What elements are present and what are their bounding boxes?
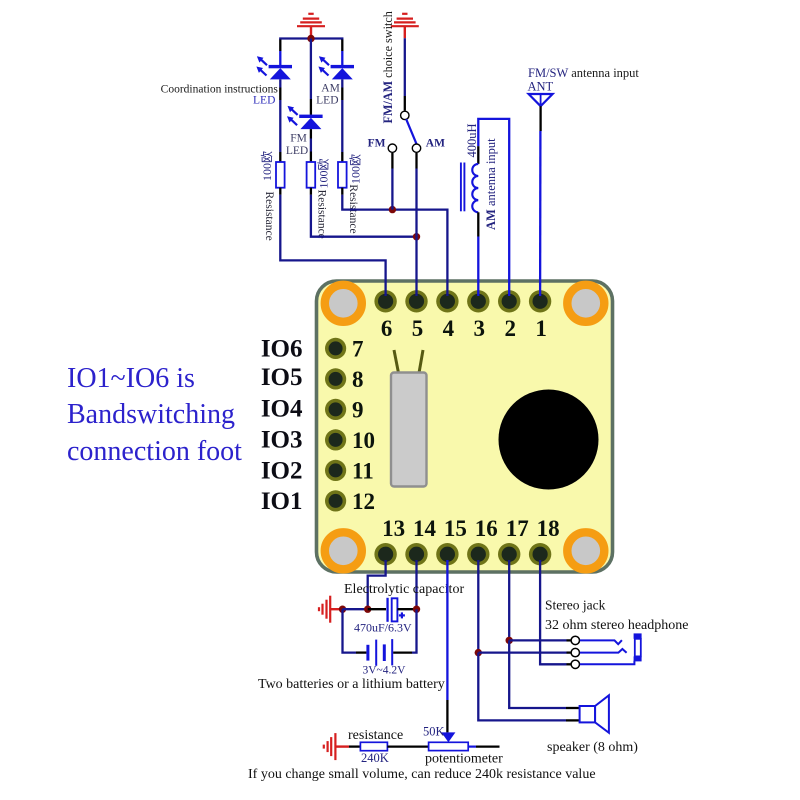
wire pin17 to speaker top (509, 640, 566, 708)
jack J1 sleeve line3 (580, 661, 635, 665)
svg-text:IO5: IO5 (261, 364, 303, 391)
svg-text:FM/AM choice switch: FM/AM choice switch (381, 11, 395, 123)
wire LED D1 bottom lead (279, 79, 281, 87)
ground GND3 capacitor rail (319, 596, 343, 623)
junction top rail (307, 35, 314, 42)
jack terminal 3 (571, 660, 579, 668)
svg-text:7: 7 (352, 337, 364, 362)
pin number labels 13-18 (382, 516, 559, 541)
wire inductor top lead (477, 146, 479, 164)
pin number labels 6 5 4 3 2 1 (381, 316, 547, 341)
svg-text:LED: LED (316, 94, 338, 106)
svg-text:Resistance: Resistance (263, 192, 275, 241)
pin 17 (498, 543, 520, 565)
svg-text:IO6: IO6 (261, 336, 303, 363)
wire pin14 down (415, 560, 417, 609)
svg-text:13: 13 (382, 516, 405, 541)
svg-text:LED: LED (286, 145, 308, 157)
pin number labels 7-12 (352, 337, 375, 515)
wire R2 to pin5 rail (310, 188, 312, 195)
switch AM contact (412, 144, 420, 152)
wire pin16 down (477, 560, 479, 653)
wire R4 to potentiometer (387, 745, 428, 747)
IO labels IO6-IO1 (261, 336, 303, 516)
svg-text:3V~4.2V: 3V~4.2V (363, 665, 407, 677)
wire battery left lead (343, 609, 357, 652)
svg-text:17: 17 (506, 516, 529, 541)
svg-text:IO1~IO6 is: IO1~IO6 is (67, 363, 195, 394)
ground GND1 top-left (297, 14, 325, 38)
svg-text:AM: AM (321, 82, 340, 94)
switch S1 lever (406, 119, 416, 144)
mounting hole bottom-left (325, 532, 362, 569)
svg-text:100欧: 100欧 (317, 158, 331, 188)
potentiometer wiper arrow (441, 732, 455, 742)
svg-text:potentiometer: potentiometer (425, 751, 503, 766)
wire cap left lead (368, 608, 386, 610)
svg-text:50K: 50K (423, 724, 445, 738)
wire R3 to pin4 rail (341, 188, 343, 195)
wire top LED rail (280, 39, 342, 41)
junction pin14 cap battery (413, 606, 420, 613)
svg-text:Two batteries or a lithium bat: Two batteries or a lithium battery (258, 677, 445, 692)
junction AM wire to pin5 rail (413, 233, 420, 240)
svg-text:IO2: IO2 (261, 458, 303, 485)
pin 18 (529, 543, 551, 565)
pin 5 (405, 290, 427, 312)
svg-text:speaker (8 ohm): speaker (8 ohm) (547, 740, 638, 755)
pin 8 (325, 368, 346, 389)
resistor R1 (276, 162, 285, 188)
resistor R4 240K (360, 742, 387, 750)
wire potentiometer right lead (468, 745, 476, 747)
svg-text:AM antenna input: AM antenna input (484, 138, 498, 230)
resistor R3 (338, 162, 347, 188)
pin 2 (498, 290, 520, 312)
wire AM contact down to pin5 (415, 153, 417, 169)
svg-text:Resistance: Resistance (316, 190, 328, 239)
mounting hole bottom-right (567, 532, 604, 569)
wire AM antenna loop pin2 (478, 119, 509, 296)
ground GND4 volume (324, 733, 349, 760)
svg-text:connection foot: connection foot (67, 436, 242, 467)
wire lead LED D2 top (341, 40, 343, 52)
mounting hole top-left (325, 285, 362, 322)
junction pin17 jack line1 (506, 637, 513, 644)
note IO1~IO6 is Bandswitching connection foot (67, 363, 242, 467)
svg-text:100欧: 100欧 (260, 151, 274, 181)
wire LED D2 bottom lead (341, 79, 343, 87)
svg-text:15: 15 (444, 516, 467, 541)
junction ground rail (339, 606, 346, 613)
svg-text:ANT: ANT (528, 80, 554, 94)
jack J1 contact line2 (580, 649, 627, 653)
wire cap right lead (397, 608, 416, 610)
pin 16 (467, 543, 489, 565)
wire pin18 to jack sleeve (540, 560, 566, 664)
pin 9 (325, 399, 346, 420)
svg-text:resistance: resistance (348, 728, 403, 743)
svg-text:2: 2 (504, 316, 516, 341)
crystal component on board (391, 350, 427, 487)
wire pin17 down (508, 560, 510, 640)
svg-text:3: 3 (474, 316, 486, 341)
svg-text:FM: FM (290, 132, 307, 144)
svg-text:Stereo jack: Stereo jack (545, 598, 606, 613)
inductor L1 core (460, 163, 462, 212)
svg-text:IO4: IO4 (261, 396, 303, 423)
pin 14 (405, 543, 427, 565)
wire middle LED branch (310, 39, 312, 100)
wire jack line1 from junction (509, 639, 566, 641)
svg-text:470uF/6.3V: 470uF/6.3V (354, 621, 412, 635)
svg-text:5: 5 (412, 316, 424, 341)
wire LED D3 bottom lead (310, 129, 312, 138)
pin 6 (374, 290, 396, 312)
svg-text:100欧: 100欧 (348, 154, 362, 184)
pin 1 (529, 290, 551, 312)
pin 13 (374, 543, 396, 565)
epoxy blob chip on board (499, 390, 599, 490)
wire FM contact down (391, 153, 393, 169)
pin 15 (436, 543, 458, 565)
capacitor C1 electrolytic (386, 598, 405, 622)
svg-text:8: 8 (352, 367, 364, 392)
wire pin15 to potentiometer wiper (446, 560, 448, 700)
LED D3 FM LED (287, 106, 323, 129)
wire pin16 to speaker bottom (478, 653, 566, 721)
mounting hole top-right (567, 285, 604, 322)
svg-text:10: 10 (352, 428, 375, 453)
resistor R2 (307, 162, 316, 188)
svg-text:400uH: 400uH (465, 123, 479, 157)
jack J1 contact line1 (580, 640, 622, 644)
LED D1 Coordination instructions LED (256, 56, 292, 79)
svg-text:12: 12 (352, 489, 375, 514)
LED D2 AM LED (318, 56, 354, 79)
wire antenna to pin1 (539, 106, 541, 131)
wire lead LED D1 top (279, 40, 281, 52)
wire inductor bottom lead to pin3 (477, 212, 479, 236)
potentiometer RP1 body (429, 742, 469, 750)
wire pin13 to capacitor rail (368, 560, 386, 609)
svg-text:32 ohm stereo headphone: 32 ohm stereo headphone (545, 618, 688, 633)
inductor L1 coil (472, 164, 478, 212)
svg-text:1: 1 (535, 316, 547, 341)
svg-text:IO3: IO3 (261, 427, 303, 454)
jack J1 body (634, 633, 642, 661)
pin 3 (467, 290, 489, 312)
wire jack line2 from junction (478, 651, 566, 653)
antenna ANT symbol (529, 94, 553, 106)
switch S1 pivot (401, 111, 409, 119)
svg-text:6: 6 (381, 316, 393, 341)
ground GND2 switch (391, 14, 419, 38)
wire battery right lead (393, 651, 412, 653)
svg-text:9: 9 (352, 398, 364, 423)
pin 11 (325, 460, 346, 481)
svg-text:If you change small volume, ca: If you change small volume, can reduce 2… (248, 767, 596, 782)
pin 7 (325, 338, 346, 359)
svg-text:11: 11 (352, 459, 374, 484)
battery BT1 (366, 639, 392, 666)
svg-text:18: 18 (537, 516, 560, 541)
svg-text:FM/SW antenna input: FM/SW antenna input (528, 66, 639, 80)
svg-text:LED: LED (253, 94, 275, 106)
svg-text:16: 16 (475, 516, 498, 541)
wire R1 to pin6 (279, 188, 281, 195)
pin 4 (436, 290, 458, 312)
pin 10 (325, 429, 346, 450)
svg-text:FM: FM (368, 138, 386, 150)
wire ground to R4 (349, 745, 360, 747)
module U1 board (317, 281, 613, 572)
junction pin13 cap (364, 606, 371, 613)
svg-text:AM: AM (426, 138, 445, 150)
svg-text:240K: 240K (361, 751, 389, 765)
svg-text:IO1: IO1 (261, 488, 303, 515)
jack terminal 1 (571, 636, 579, 644)
svg-text:4: 4 (443, 316, 455, 341)
wire ground to switch pivot (404, 38, 406, 96)
switch FM contact (388, 144, 396, 152)
svg-text:14: 14 (413, 516, 437, 541)
wire rail ground to cap (343, 608, 368, 610)
pin 12 (325, 490, 346, 511)
jack terminal 2 (571, 648, 579, 656)
svg-text:Bandswitching: Bandswitching (67, 399, 235, 430)
junction pin16 jack line2 (475, 649, 482, 656)
speaker LS1 (580, 695, 609, 733)
junction FM wire to pin4 rail (389, 206, 396, 213)
